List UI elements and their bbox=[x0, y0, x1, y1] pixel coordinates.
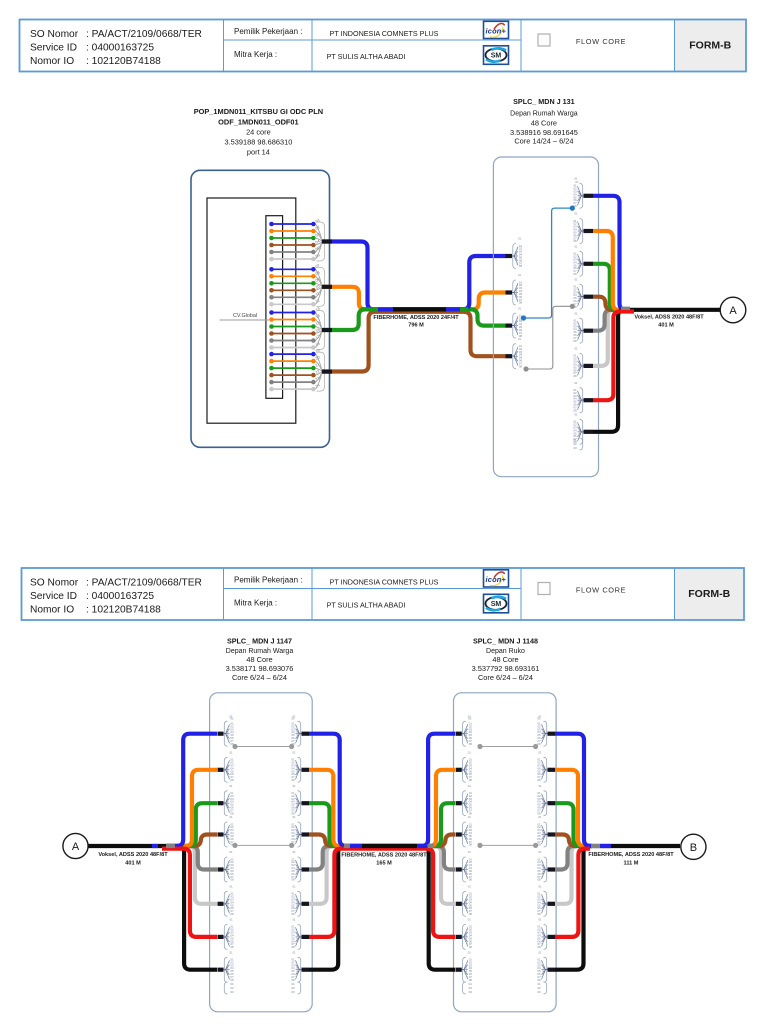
fiber row 08 bbox=[269, 274, 316, 279]
cable sheath FIBERHOME 165M bbox=[362, 844, 417, 848]
fiber row 02 bbox=[269, 229, 316, 234]
fiber row 11 bbox=[269, 295, 316, 300]
cable orange J131 tray 2 out bbox=[593, 231, 622, 310]
svg-text:01: 01 bbox=[229, 918, 233, 922]
svg-text:08: 08 bbox=[573, 272, 577, 276]
svg-text:796 M: 796 M bbox=[408, 323, 424, 329]
svg-text:01: 01 bbox=[538, 751, 542, 755]
dark fiber tip J131 left tray 2 bbox=[506, 290, 513, 294]
svg-text:08: 08 bbox=[469, 742, 473, 746]
cable blue J1148 tray 1 to B bbox=[555, 734, 592, 846]
svg-text:08: 08 bbox=[230, 778, 234, 782]
blue bundle tip segment right bbox=[446, 307, 460, 311]
svg-text:CV.Global: CV.Global bbox=[233, 313, 257, 319]
splice tray J1148 left tray 8 bbox=[462, 950, 472, 982]
svg-text:01: 01 bbox=[229, 751, 233, 755]
svg-text:Mitra Kerja :: Mitra Kerja : bbox=[234, 50, 277, 59]
fiber row 05 bbox=[269, 250, 316, 255]
dark fiber tip J1148 right tray 5 bbox=[548, 867, 556, 871]
svg-text:401 M: 401 M bbox=[658, 322, 674, 328]
cable white J1147 to J1148 tray 6 bbox=[309, 846, 455, 904]
fiber row 13 bbox=[269, 310, 316, 315]
logo SM 2 bbox=[484, 594, 509, 613]
patch link gray J131 bbox=[526, 306, 572, 369]
dark fiber tip J131 right tray 5 bbox=[584, 329, 594, 333]
svg-text:icon+: icon+ bbox=[486, 27, 507, 36]
cable green A to J1147 tray 3 bbox=[166, 803, 217, 846]
patch link gray J1147 middle bbox=[232, 843, 294, 848]
header 1: SO/Service/IO ids bbox=[30, 29, 202, 67]
dark fiber tip J1148 left tray 2 bbox=[456, 768, 462, 772]
fiber row 23 bbox=[269, 380, 316, 385]
dark fiber tip J1147 left tray 3 bbox=[218, 801, 224, 805]
svg-text:24 core: 24 core bbox=[246, 128, 271, 137]
dark fiber tip J131 left tray 1 bbox=[506, 254, 513, 258]
dark fiber tip J1147 right tray 6 bbox=[302, 902, 310, 906]
svg-text:Depan Rumah Warga: Depan Rumah Warga bbox=[510, 110, 578, 117]
svg-text:01: 01 bbox=[574, 413, 578, 417]
svg-text:08: 08 bbox=[519, 264, 523, 268]
dark fiber tip J1148 right tray 2 bbox=[548, 768, 556, 772]
splice tray J1148 left tray 2 bbox=[462, 751, 472, 783]
splice tray J131 left tray 1 bbox=[512, 237, 522, 269]
dark fiber tip J1147 left tray 2 bbox=[218, 768, 224, 772]
splice tray J1148 right tray 1 bbox=[537, 714, 547, 746]
logo ICON+ 2 bbox=[484, 570, 509, 587]
cable orange J1147 to J1148 tray 2 bbox=[309, 770, 455, 846]
dark fiber tip J131 right tray 1 bbox=[584, 194, 594, 198]
cable blue fibers 01-06 bbox=[322, 242, 506, 310]
svg-text:08: 08 bbox=[469, 843, 473, 847]
svg-text:08: 08 bbox=[573, 239, 577, 243]
splice tray J1147 left tray 2 bbox=[224, 751, 234, 783]
splice tray J131 right tray 2 bbox=[573, 212, 583, 244]
svg-text:165 M: 165 M bbox=[376, 861, 392, 867]
cable black J1148 tray 8 to B bbox=[555, 846, 680, 970]
splice tray J1148 right tray 5 bbox=[537, 850, 547, 882]
svg-text:01: 01 bbox=[518, 306, 522, 310]
cable white A to J1147 tray 6 bbox=[166, 846, 217, 904]
dark fiber tip J1147 left tray 7 bbox=[218, 935, 224, 939]
svg-text:3.539188 98.686310: 3.539188 98.686310 bbox=[224, 138, 292, 147]
svg-text:08: 08 bbox=[519, 364, 523, 368]
svg-text:01: 01 bbox=[292, 751, 296, 755]
svg-text:03: 03 bbox=[230, 990, 234, 994]
svg-text:08: 08 bbox=[537, 945, 541, 949]
svg-text:01: 01 bbox=[229, 885, 233, 889]
fiber row 10 bbox=[269, 288, 316, 293]
svg-text:01: 01 bbox=[538, 918, 542, 922]
svg-text:08: 08 bbox=[291, 945, 295, 949]
splice tray J1147 left tray 1 bbox=[224, 714, 234, 746]
fiber row 18 bbox=[269, 345, 316, 350]
svg-text:01: 01 bbox=[518, 337, 522, 341]
svg-text:: 04000163725: : 04000163725 bbox=[86, 43, 154, 54]
splice tray J131 right tray 1 bbox=[573, 177, 583, 209]
svg-text:08: 08 bbox=[537, 742, 541, 746]
cable black J1147 to J1148 tray 8 bbox=[309, 846, 455, 970]
svg-text:Core 6/24 – 6/24: Core 6/24 – 6/24 bbox=[478, 673, 533, 682]
dark fiber tip J1148 left tray 7 bbox=[456, 935, 462, 939]
svg-text:03: 03 bbox=[537, 990, 541, 994]
svg-text:Core 14/24 – 6/24: Core 14/24 – 6/24 bbox=[514, 136, 573, 145]
title splice closure J1147 bbox=[226, 637, 294, 682]
splice tray fragment J1147 L below bbox=[224, 982, 234, 994]
svg-text:01: 01 bbox=[229, 850, 233, 854]
svg-text:03: 03 bbox=[469, 990, 473, 994]
splice tray J131 right tray 8 bbox=[573, 413, 583, 445]
cable blue A to J1147 tray 1 bbox=[166, 734, 217, 846]
dark fiber tip J1147 left tray 4 bbox=[218, 832, 224, 836]
fiber row 06 bbox=[269, 257, 316, 262]
node A bottom bbox=[63, 833, 88, 858]
splitter fan group 4 bbox=[316, 352, 325, 391]
fiber row 15 bbox=[269, 324, 316, 329]
fiber row 21 bbox=[269, 366, 316, 371]
cable black A to J1147 tray 8 bbox=[88, 846, 217, 970]
label FIBERHOME 24F/4T bbox=[373, 315, 459, 329]
logo ICON+ 1 bbox=[484, 21, 509, 38]
fiber row 12 bbox=[269, 302, 316, 307]
splitter fan group 2 bbox=[316, 267, 325, 306]
splitter fan group 3 bbox=[316, 311, 325, 350]
svg-text:3.538171 98.693076: 3.538171 98.693076 bbox=[226, 664, 294, 673]
svg-text:: PA/ACT/2109/0668/TER: : PA/ACT/2109/0668/TER bbox=[86, 29, 202, 40]
dark fiber tip J1147 left tray 6 bbox=[218, 902, 224, 906]
svg-text:PT SULIS ALTHA ABADI: PT SULIS ALTHA ABADI bbox=[327, 52, 406, 61]
ODC inner frame bbox=[207, 198, 296, 423]
svg-text:01: 01 bbox=[537, 717, 541, 721]
label FIBERHOME 111M bbox=[588, 852, 674, 866]
svg-text:401 M: 401 M bbox=[125, 860, 141, 866]
svg-text:48 Core: 48 Core bbox=[492, 655, 518, 664]
svg-text:: 102120B74188: : 102120B74188 bbox=[86, 56, 161, 67]
tip blue on B bundle bbox=[600, 844, 611, 848]
svg-text:01: 01 bbox=[538, 850, 542, 854]
svg-text:Service ID: Service ID bbox=[30, 43, 77, 54]
svg-text:POP_1MDN011_KITSBU GI ODC PLN: POP_1MDN011_KITSBU GI ODC PLN bbox=[194, 107, 323, 116]
dark fiber tip J1147 right tray 2 bbox=[302, 768, 310, 772]
svg-text:08: 08 bbox=[230, 945, 234, 949]
checkbox FLOW CORE 1 bbox=[538, 34, 550, 46]
splice tray J131 left tray 2 bbox=[512, 273, 522, 305]
header 1: job labels bbox=[234, 27, 439, 61]
splice tray J1148 left tray 7 bbox=[462, 918, 472, 950]
svg-text:FORM-B: FORM-B bbox=[688, 588, 730, 600]
dark fiber tip J1147 right tray 4 bbox=[302, 832, 310, 836]
svg-text:A: A bbox=[729, 305, 737, 317]
svg-text:01: 01 bbox=[538, 950, 542, 954]
splice tray J1147 right tray 7 bbox=[291, 918, 301, 950]
splice tray J1148 left tray 6 bbox=[462, 885, 472, 917]
dark fiber tip J1148 right tray 8 bbox=[548, 968, 556, 972]
dark fiber tip J1147 left tray 5 bbox=[218, 867, 224, 871]
svg-text:01: 01 bbox=[292, 815, 296, 819]
node dot gray right bbox=[570, 304, 575, 309]
svg-text:01: 01 bbox=[468, 885, 472, 889]
svg-text:01: 01 bbox=[468, 717, 472, 721]
dark fiber tip J1147 right tray 5 bbox=[302, 867, 310, 871]
svg-text:SO Nomor: SO Nomor bbox=[30, 29, 79, 40]
cable red J1147 to J1148 tray 7 bbox=[309, 849, 455, 937]
svg-text:01: 01 bbox=[575, 180, 579, 184]
svg-text:Voksel, ADSS 2020 48F/8T: Voksel, ADSS 2020 48F/8T bbox=[98, 852, 168, 858]
svg-text:08: 08 bbox=[519, 301, 523, 305]
checkbox FLOW CORE 2 bbox=[538, 583, 550, 595]
svg-text:08: 08 bbox=[291, 878, 295, 882]
fiber row 14 bbox=[269, 317, 316, 322]
svg-text:01: 01 bbox=[574, 277, 578, 281]
CV.Global feeder line bbox=[220, 319, 269, 321]
cable gray J1147 to J1148 tray 5 bbox=[309, 846, 455, 870]
svg-text:01: 01 bbox=[292, 885, 296, 889]
svg-text:FORM-B: FORM-B bbox=[689, 40, 731, 52]
dark fiber tip J1148 right tray 4 bbox=[548, 832, 556, 836]
splice tray J1148 left tray 5 bbox=[462, 850, 472, 882]
splice tray J131 right tray 4 bbox=[573, 277, 583, 309]
patch link light blue J131 bbox=[524, 208, 573, 318]
header table 1 bbox=[20, 20, 747, 72]
cable red J131 tray 7 out bbox=[593, 312, 634, 401]
splice tray J1147 right tray 5 bbox=[291, 850, 301, 882]
cable red J1148 tray 7 to B bbox=[555, 849, 590, 937]
header 2: job labels bbox=[234, 576, 439, 610]
node dot gray left bbox=[523, 366, 528, 371]
svg-text:08: 08 bbox=[230, 912, 234, 916]
svg-text:01: 01 bbox=[468, 784, 472, 788]
svg-text:08: 08 bbox=[573, 374, 577, 378]
svg-text:: 04000163725: : 04000163725 bbox=[86, 591, 154, 602]
cable sheath FIBERHOME 24F/4T bbox=[393, 307, 446, 311]
svg-text:08: 08 bbox=[537, 878, 541, 882]
splice tray J131 right tray 7 bbox=[573, 381, 583, 413]
splice tray J131 right tray 5 bbox=[573, 311, 583, 343]
svg-text:01: 01 bbox=[230, 717, 234, 721]
svg-text:Mitra Kerja :: Mitra Kerja : bbox=[234, 599, 277, 608]
node A top bbox=[720, 297, 746, 323]
splice tray J1148 right tray 7 bbox=[537, 918, 547, 950]
splice tray J1147 left tray 5 bbox=[224, 850, 234, 882]
svg-text:SPLC_ MDN J 131: SPLC_ MDN J 131 bbox=[513, 97, 575, 106]
tip gray on B bundle bbox=[591, 844, 600, 848]
cable brown fibers 19-24 bbox=[322, 312, 506, 372]
cable blue J1147 to J1148 tray 1 bbox=[309, 734, 455, 846]
svg-text:01: 01 bbox=[574, 381, 578, 385]
patch link gray J1148 top bbox=[477, 744, 538, 749]
svg-text:FLOW CORE: FLOW CORE bbox=[576, 586, 626, 595]
cable orange A to J1147 tray 2 bbox=[166, 770, 217, 846]
svg-text:01: 01 bbox=[468, 918, 472, 922]
svg-text:Nomor IO: Nomor IO bbox=[30, 605, 74, 616]
svg-text:08: 08 bbox=[469, 878, 473, 882]
svg-text:01: 01 bbox=[574, 347, 578, 351]
ODC cabinet outer box bbox=[191, 170, 330, 447]
svg-text:Service ID: Service ID bbox=[30, 591, 77, 602]
cable red A to J1147 tray 7 bbox=[162, 849, 217, 937]
fiber row 03 bbox=[269, 236, 316, 241]
svg-text:FIBERHOME, ADSS 2020 24F/4T: FIBERHOME, ADSS 2020 24F/4T bbox=[373, 315, 459, 321]
svg-text:Pemilik Pekerjaan :: Pemilik Pekerjaan : bbox=[234, 27, 302, 36]
svg-text:ODF_1MDN011_ODF01: ODF_1MDN011_ODF01 bbox=[218, 117, 299, 126]
cable gray J1148 tray 5 to B bbox=[555, 846, 592, 870]
svg-text:01: 01 bbox=[468, 850, 472, 854]
svg-text:01: 01 bbox=[468, 751, 472, 755]
splice tray J1148 left tray 4 bbox=[462, 815, 472, 847]
splice tray J1148 left tray 3 bbox=[462, 784, 472, 816]
dark fiber tip J1148 left tray 6 bbox=[456, 902, 462, 906]
splice tray J1148 right tray 2 bbox=[537, 751, 547, 783]
fiber row 24 bbox=[269, 387, 316, 392]
dark fiber tip J1148 left tray 1 bbox=[456, 732, 462, 736]
tip blue on A bundle bbox=[152, 844, 158, 848]
dark fiber tip J1148 left tray 8 bbox=[456, 968, 462, 972]
svg-text:08: 08 bbox=[469, 912, 473, 916]
svg-text:01: 01 bbox=[229, 784, 233, 788]
dark fiber tip J1147 right tray 3 bbox=[302, 801, 310, 805]
dark fiber tip J1148 left tray 3 bbox=[456, 801, 462, 805]
cable orange fibers 07-12 bbox=[322, 287, 506, 310]
label FIBERHOME 165M bbox=[341, 853, 427, 867]
splice tray fragment J1148 R below bbox=[537, 982, 546, 994]
cable brown J131 tray 4 out bbox=[593, 297, 622, 310]
cable orange J1148 tray 2 to B bbox=[555, 770, 592, 846]
dark fiber tip J1148 left tray 5 bbox=[456, 867, 462, 871]
dark fiber tip J1148 right tray 6 bbox=[548, 902, 556, 906]
splice tray J1147 left tray 3 bbox=[224, 784, 234, 816]
fiber row 22 bbox=[269, 373, 316, 378]
splice tray J1147 right tray 3 bbox=[291, 784, 301, 816]
svg-text:08: 08 bbox=[573, 339, 577, 343]
svg-text:SM: SM bbox=[491, 601, 502, 608]
svg-text:01: 01 bbox=[468, 815, 472, 819]
node dot blue right bbox=[570, 206, 575, 211]
svg-text:01: 01 bbox=[518, 237, 522, 241]
svg-text:: PA/ACT/2109/0668/TER: : PA/ACT/2109/0668/TER bbox=[86, 578, 202, 589]
fiber row 20 bbox=[269, 359, 316, 364]
tips on middle bundle bbox=[344, 844, 434, 848]
label Voksel 401M bottom bbox=[98, 852, 168, 866]
cable green J1147 to J1148 tray 3 bbox=[309, 803, 455, 846]
splice tray J131 right tray 3 bbox=[573, 245, 583, 277]
dark fiber tip J131 left tray 3 bbox=[506, 324, 513, 328]
svg-text:SPLC_ MDN J 1148: SPLC_ MDN J 1148 bbox=[473, 637, 538, 646]
svg-text:port 14: port 14 bbox=[247, 148, 270, 157]
svg-text:3.537792 98.693161: 3.537792 98.693161 bbox=[472, 664, 540, 673]
splice tray J1148 right tray 8 bbox=[537, 950, 547, 982]
title splice closure J131 bbox=[510, 97, 578, 145]
dark fiber tip J131 right tray 8 bbox=[584, 430, 594, 434]
dark fiber tip J1147 right tray 1 bbox=[302, 732, 310, 736]
cable white J131 tray 6 out bbox=[593, 310, 622, 366]
cable green fibers 13-18 bbox=[322, 309, 506, 330]
svg-text:FIBERHOME, ADSS 2020 48F/8T: FIBERHOME, ADSS 2020 48F/8T bbox=[341, 853, 427, 859]
splice tray fragment J131 below tray 8 bbox=[573, 438, 582, 450]
dark fiber tip J131 right tray 3 bbox=[584, 262, 594, 266]
node dot blue left bbox=[521, 315, 526, 320]
splice tray J1148 left tray 1 bbox=[462, 714, 472, 746]
splice tray J1147 left tray 6 bbox=[224, 885, 234, 917]
svg-text:01: 01 bbox=[292, 850, 296, 854]
splice tray J131 left tray 4 bbox=[512, 337, 522, 369]
dark fiber tip J131 right tray 2 bbox=[584, 229, 594, 233]
fiber row 17 bbox=[269, 338, 316, 343]
label Voksel 401M top bbox=[634, 315, 704, 329]
node B bottom bbox=[681, 834, 706, 859]
cable brown J1148 tray 4 to B bbox=[555, 835, 592, 847]
splice tray J1148 right tray 6 bbox=[537, 885, 547, 917]
dark tips at ODC ports bbox=[322, 242, 332, 372]
svg-text:111 M: 111 M bbox=[624, 860, 639, 866]
cable brown J1147 to J1148 tray 4 bbox=[309, 835, 455, 847]
svg-text:Pemilik Pekerjaan :: Pemilik Pekerjaan : bbox=[234, 576, 302, 585]
svg-text:PT INDONESIA COMNETS PLUS: PT INDONESIA COMNETS PLUS bbox=[330, 29, 439, 38]
svg-text:01: 01 bbox=[538, 885, 542, 889]
splice tray J1148 right tray 3 bbox=[537, 784, 547, 816]
svg-text:01: 01 bbox=[292, 950, 296, 954]
svg-text:03: 03 bbox=[573, 446, 577, 450]
dark fiber tip J1147 right tray 7 bbox=[302, 935, 310, 939]
svg-text:SM: SM bbox=[491, 53, 502, 60]
fiber row 09 bbox=[269, 281, 316, 286]
svg-text:FIBERHOME, ADSS 2020 48F/8T: FIBERHOME, ADSS 2020 48F/8T bbox=[588, 852, 674, 858]
tip gray on A bundle bbox=[166, 844, 175, 848]
cable black J131 tray 8 out bbox=[593, 310, 720, 432]
svg-text:08: 08 bbox=[230, 878, 234, 882]
splice tray J1147 right tray 1 bbox=[291, 714, 301, 746]
green bundle tip segments bbox=[361, 307, 378, 311]
dark fiber tip J1148 right tray 7 bbox=[548, 935, 556, 939]
svg-text:01: 01 bbox=[538, 784, 542, 788]
splice closure box J1148 bbox=[454, 693, 557, 1012]
svg-text:FLOW CORE: FLOW CORE bbox=[576, 37, 626, 46]
svg-text:01: 01 bbox=[292, 918, 296, 922]
svg-text:01: 01 bbox=[574, 245, 578, 249]
svg-text:01: 01 bbox=[574, 212, 578, 216]
svg-text:Core 6/24 – 6/24: Core 6/24 – 6/24 bbox=[232, 673, 287, 682]
svg-text:08: 08 bbox=[537, 912, 541, 916]
svg-text:08: 08 bbox=[469, 778, 473, 782]
dark fiber tip J1148 right tray 3 bbox=[548, 801, 556, 805]
cable blue J131 tray 1 out bbox=[593, 196, 626, 310]
svg-text:SO Nomor: SO Nomor bbox=[30, 578, 79, 589]
svg-text:: 102120B74188: : 102120B74188 bbox=[86, 605, 161, 616]
cable green J1148 tray 3 to B bbox=[555, 803, 592, 846]
svg-text:01: 01 bbox=[574, 311, 578, 315]
svg-text:01: 01 bbox=[538, 815, 542, 819]
splice tray J1148 right tray 4 bbox=[537, 815, 547, 847]
splice tray J1147 left tray 7 bbox=[224, 918, 234, 950]
svg-text:01: 01 bbox=[291, 717, 295, 721]
dark fiber tip J1148 left tray 4 bbox=[456, 832, 462, 836]
header 2: SO/Service/IO ids bbox=[30, 578, 202, 616]
dark fiber tip J131 left tray 4 bbox=[506, 354, 513, 358]
cable brown A to J1147 tray 4 bbox=[166, 835, 217, 847]
splice tray J1147 right tray 2 bbox=[291, 751, 301, 783]
splice closure box J1147 bbox=[210, 693, 313, 1012]
patch link gray J1147 top bbox=[232, 744, 294, 749]
svg-text:08: 08 bbox=[469, 945, 473, 949]
cable gray A to J1147 tray 5 bbox=[166, 846, 217, 870]
fiber row 01 bbox=[269, 222, 316, 227]
svg-text:03: 03 bbox=[291, 990, 295, 994]
cable green J131 tray 3 out bbox=[593, 264, 622, 310]
label CV.Global bbox=[231, 312, 260, 320]
svg-text:PT INDONESIA COMNETS PLUS: PT INDONESIA COMNETS PLUS bbox=[330, 578, 439, 587]
cable gray J131 tray 5 out bbox=[593, 310, 622, 331]
splice tray fragment J1148 L below bbox=[463, 982, 473, 994]
splice closure box J131 bbox=[493, 157, 598, 477]
cable white J1148 tray 6 to B bbox=[555, 846, 592, 904]
